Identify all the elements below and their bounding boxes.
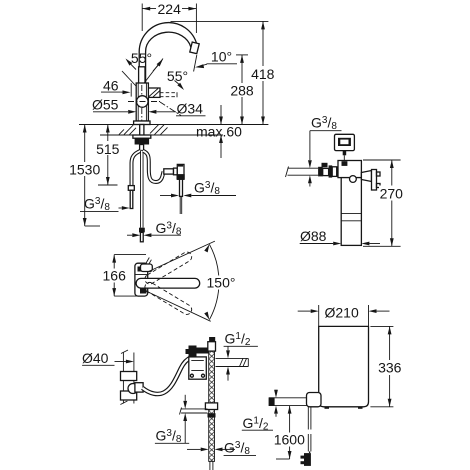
supply tube mid: [337, 168, 344, 176]
dimension dia210: [318, 305, 320, 326]
10 deg arc arrow: [195, 64, 204, 68]
svg-text:Ø210: Ø210: [325, 304, 359, 320]
trap horizontal tube: [164, 169, 174, 174]
plate inner lines: [191, 360, 204, 362]
svg-text:1530: 1530: [69, 161, 100, 177]
lever left swing line: [122, 71, 136, 86]
dimension dia34: [148, 110, 156, 114]
dimension 166: [113, 255, 115, 297]
left supply hose: [132, 151, 141, 186]
dimension 224 extension line right: [195, 4, 197, 34]
tee valve cap black: [209, 337, 215, 342]
cable elbow: [342, 161, 348, 166]
ball centerline horizontal: [128, 101, 160, 103]
countertop bottom line: [100, 134, 223, 136]
svg-text:336: 336: [378, 360, 402, 376]
wall screws: [377, 172, 381, 176]
svg-text:166: 166: [103, 268, 127, 284]
inlet pipe: [269, 397, 309, 399]
pipe break top: [121, 350, 128, 354]
swivel leg lower: [146, 291, 211, 321]
riser pipe: [122, 353, 124, 404]
dimension max60 lower arrow: [220, 135, 222, 158]
counter hatching right: [150, 125, 168, 135]
braided hose: [209, 351, 215, 461]
dimension 515: [107, 125, 109, 186]
svg-text:418: 418: [251, 66, 275, 82]
dimension 418 line: [262, 21, 264, 124]
angle arrow 55 left: [126, 59, 133, 66]
check valve top cap: [178, 164, 183, 166]
boiler cylinder: [319, 326, 369, 406]
lever tip marks: [146, 258, 152, 265]
display screen window: [340, 140, 348, 145]
left hose tail tube: [130, 190, 133, 208]
svg-text:1600: 1600: [274, 432, 305, 448]
plug neck: [309, 451, 311, 453]
dimension 336: [370, 325, 393, 327]
aerator tip extension line: [194, 55, 197, 72]
dimension 224 extension line left: [141, 4, 143, 32]
cartridge band lines: [341, 213, 361, 215]
lever mount block: [148, 88, 160, 97]
top reference line (spout apex): [171, 20, 269, 22]
power cable: [307, 407, 309, 430]
spout capsule dashed lower: [143, 281, 193, 317]
supply valve handle: [322, 163, 328, 168]
mounting washer: [133, 135, 151, 138]
hose elbow fitting black: [189, 346, 197, 357]
wall bracket arm: [361, 171, 371, 182]
check valve nut black: [177, 174, 185, 179]
plug pins: [301, 456, 305, 459]
swivel leg upper: [149, 241, 215, 271]
lever upright solid: [139, 67, 145, 84]
display screen dark: [338, 138, 351, 146]
svg-text:288: 288: [230, 82, 254, 98]
dimension max60 upper arrow: [220, 105, 222, 125]
svg-text:10°: 10°: [211, 49, 232, 65]
angle arrow 55 right: [177, 83, 184, 90]
check valve body: [177, 164, 184, 179]
tee lower black: [208, 413, 216, 417]
arc arrow bottom: [204, 312, 209, 320]
display unit outer: [335, 134, 355, 150]
dimension 224 line: [142, 8, 196, 10]
supply valve block 2: [329, 165, 333, 177]
connector to tee: [197, 348, 209, 354]
svg-text:515: 515: [96, 141, 120, 157]
hose stem: [140, 145, 144, 151]
boiler feet: [325, 407, 330, 409]
filter head: [338, 161, 361, 178]
spout capsule dashed upper: [143, 250, 193, 286]
svg-text:Ø55: Ø55: [92, 97, 119, 113]
svg-text:Ø34: Ø34: [177, 101, 204, 117]
counter hatching left: [119, 125, 136, 135]
filter cartridge cylinder: [341, 178, 361, 246]
wall plate: [372, 170, 377, 191]
body plan outline: [135, 263, 148, 296]
base plate: [134, 121, 150, 125]
supply tube left: [288, 167, 319, 169]
pipe break bottom: [120, 401, 127, 405]
svg-text:150°: 150°: [207, 275, 236, 291]
body inner lines: [137, 83, 139, 121]
angle arrow 55 mid: [157, 59, 163, 67]
plug body: [304, 453, 311, 466]
label 224: [156, 2, 182, 15]
trap flange: [174, 168, 178, 175]
spout arc tube: [139, 23, 197, 85]
center hose tail: [140, 232, 143, 241]
pipe collar upper: [121, 372, 137, 381]
faucet body: [136, 83, 148, 121]
ball joint circle: [137, 96, 149, 108]
left hose nut: [128, 186, 134, 191]
mounting plate: [189, 357, 207, 379]
arc arrow top: [204, 244, 209, 252]
label G3/8 braided hose: [187, 448, 201, 450]
valve tail tube: [180, 179, 183, 196]
G1/2 stub pipe: [216, 357, 249, 359]
hose nut at elbow: [135, 383, 143, 392]
countertop top line: [79, 124, 268, 126]
supply valve block 1: [318, 167, 323, 177]
inlet elbow fitting: [307, 393, 322, 407]
svg-text:46: 46: [103, 77, 119, 93]
valve tail thin lines: [179, 196, 181, 214]
flexible hose: [143, 358, 192, 395]
swivel arc: [209, 244, 219, 319]
lever axis dash line: [160, 102, 181, 116]
svg-text:max.60: max.60: [196, 124, 242, 140]
center hose fitting black: [139, 228, 145, 233]
lever horizontal dashed position: [160, 92, 177, 94]
mounting nut black: [135, 138, 150, 144]
dimension 1530: [84, 125, 86, 227]
dimension 270: [363, 159, 401, 161]
label G3/8 tee stub: [184, 395, 186, 401]
tee nut on braided hose: [205, 403, 217, 410]
arrow 224 right: [188, 7, 196, 11]
display stem: [343, 151, 347, 156]
display cable: [343, 155, 345, 161]
spout capsule solid: [136, 278, 200, 288]
svg-text:270: 270: [380, 185, 404, 201]
dimension 1600: [289, 406, 291, 459]
label G1/2 inlet: [275, 389, 277, 391]
center hose: [140, 151, 143, 228]
svg-text:Ø40: Ø40: [82, 350, 109, 366]
svg-text:224: 224: [158, 1, 182, 17]
body centerline: [141, 85, 143, 150]
aerator at spout tip: [190, 42, 199, 54]
right trap hose: [143, 151, 164, 182]
label 150 deg: [206, 276, 238, 290]
tee valve body: [208, 342, 216, 351]
lever mount hatch: [149, 89, 160, 98]
supply fitting: [344, 166, 348, 176]
svg-text:55°: 55°: [131, 50, 152, 66]
body plan details: [138, 267, 142, 272]
10 deg reference line: [207, 63, 238, 65]
plate screws: [190, 374, 193, 377]
arrow 224 left: [142, 7, 150, 11]
elbow ball: [128, 384, 138, 394]
braided hose tail: [209, 461, 211, 470]
pipe collar lower: [121, 391, 137, 400]
svg-text:55°: 55°: [167, 68, 188, 84]
filter knob: [350, 176, 357, 183]
lever knob plan: [141, 264, 153, 272]
lever right swing line: [143, 59, 163, 85]
svg-text:Ø88: Ø88: [300, 228, 327, 244]
tee side stub tube: [181, 408, 207, 410]
dimension 288 line: [241, 55, 243, 125]
inlet pipe end cap: [269, 397, 275, 406]
shank below counter: [140, 125, 144, 136]
